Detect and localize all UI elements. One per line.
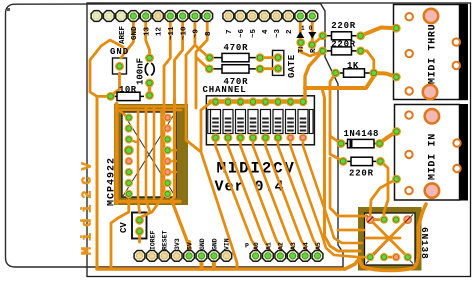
via RX0 [308,40,317,49]
svg-text:CV: CV [119,222,129,233]
svg-text:P: P [245,243,249,250]
svg-text:VIN: VIN [224,238,231,250]
wire 1K left down [330,73,341,144]
IC U1 inner traces [119,111,176,194]
wire GND pad13 to GND square [121,16,133,58]
wire entry 6N138 mid [338,229,364,232]
svg-text:12: 12 [156,26,164,36]
svg-text:GATE: GATE [287,54,297,78]
wire long vertical to 6N138 [322,88,360,251]
svg-text:8: 8 [205,31,213,36]
header J3 labels [149,230,230,250]
IC U1 MCP4922 socket body [114,104,188,205]
TX0 marker [296,25,306,53]
svg-text:A2: A2 [278,242,285,250]
wire ~9 down [186,16,195,110]
wire right vertical to GND [186,100,201,152]
switch S1 body [206,96,314,145]
connector CV [135,216,144,225]
svg-text:A0: A0 [253,242,260,250]
svg-text:3V3: 3V3 [174,238,181,250]
wire 220R-3 right up [380,161,388,220]
header J2 pin labels [226,28,294,38]
wire ~10 down [175,16,183,107]
svg-text:7: 7 [226,29,234,34]
switch S1 pads bottom [211,133,307,142]
svg-text:A5: A5 [315,242,322,250]
wire 10R left to rail [97,95,111,98]
wire 5V thick riser [187,242,191,256]
svg-text:GND: GND [211,238,218,250]
wire 470R right to GATE pads [260,56,273,59]
svg-text:MIDI THRU: MIDI THRU [428,24,439,84]
wire IC frame bottom horizontal [116,200,180,203]
svg-text:100nF: 100nF [136,58,146,85]
header J3 power row [134,251,232,262]
GND square outline [113,58,127,74]
wire 8 down [196,16,207,108]
GND square pad [115,62,124,71]
svg-text:GND: GND [199,238,206,250]
svg-text:5V: 5V [187,242,194,250]
svg-text:Ver 0.4: Ver 0.4 [215,179,285,196]
IC U2 6N138 socket body [358,207,422,271]
wire fan 2 [228,138,268,255]
wire into bar from left [201,102,237,267]
wire fan 4 [253,138,293,255]
connector GATE [274,53,283,62]
wire RX0 pad stub [311,16,314,45]
svg-text:CHANNEL: CHANNEL [203,85,247,95]
svg-text:A1: A1 [265,242,272,250]
wire fan 6 [278,138,318,255]
svg-text:GND: GND [131,26,139,40]
wire bus into 6N138 [345,259,359,269]
svg-text:A3: A3 [290,242,297,250]
Arduino board outline [6,4,344,268]
wire frame-right vertical to 5V [172,100,190,256]
svg-text:1N4148: 1N4148 [344,129,379,139]
switch S1 pads top [211,97,307,106]
wire 470R-1 left diagonal [196,46,210,58]
svg-text:~5: ~5 [250,28,258,38]
svg-text:220R: 220R [349,169,374,179]
wire bundle horizontal over IC top [117,105,187,108]
corner mark [7,8,10,11]
connector MIDI THRU [392,4,468,100]
svg-text:A4: A4 [303,242,310,250]
svg-text:13: 13 [143,26,151,36]
svg-text:~11: ~11 [168,26,176,40]
wire 470R-2 left diagonal [197,58,209,70]
header J2 top row right (7..0) [223,11,318,22]
svg-text:~6: ~6 [238,28,246,38]
svg-text:2: 2 [286,29,294,34]
IC U2 inner wires [366,220,408,258]
svg-text:IOREF: IOREF [149,230,156,250]
wire fan 7 to 6N138 [291,138,367,257]
IC U2 pads [366,215,412,261]
wire bar riser to TX region [305,51,323,100]
wire capacitor to 10R [148,83,151,95]
wire THRU pin2 thick loop [305,76,374,88]
svg-text:MCP4922: MCP4922 [107,157,118,206]
wire AREF-side gnd diagonal [90,40,123,96]
wire 6N138 bottom loop to MIDI IN [359,204,426,270]
wire RX0 via to 220R-1 [312,36,323,45]
shield board outline [87,3,471,277]
header J1 pin labels [119,25,213,44]
wire ~11 down through IC [140,16,171,220]
wire left rail down [96,96,99,269]
svg-text:470R: 470R [224,43,249,53]
resistor R7 220R [343,160,380,162]
wire fan 8 to 6N138 [303,138,362,243]
connector CV outline [132,213,147,239]
svg-text:GND: GND [110,47,129,57]
wire GND square down [110,73,120,96]
svg-text:AREF: AREF [119,25,127,44]
header J4 labels [245,242,322,250]
svg-text:0: 0 [309,25,313,32]
svg-text:4: 4 [262,29,270,34]
wire CV bottom stub [138,231,141,242]
wire to 220R-3 left [330,132,343,161]
svg-text:220R: 220R [331,21,356,31]
connector MIDI IN [392,104,468,201]
wire DIP top thick bar [211,99,304,104]
wire 1N4148 right to MIDI IN pin [380,132,397,144]
wire fan 3 [241,138,281,255]
svg-text:6N138: 6N138 [419,227,430,260]
RX0 marker [308,25,318,53]
wire right bundle down to 6N138 [330,158,366,216]
wire TX0 via to 220R-2 [301,43,323,57]
via TX0 [296,38,305,47]
wire bottom gnd bus [97,267,345,271]
wire MIDI IN pin2 to 6N138 [370,179,396,214]
connector GATE outline [273,50,284,75]
svg-text:Midi2CV: Midi2CV [81,156,96,255]
wire 1K to MIDI THRU pin [374,73,397,77]
wire 220R-2 right to 1K [361,51,374,73]
wire IC left edge vertical [115,104,119,203]
wire fan 5 [266,138,306,255]
wire fan 1 [216,138,256,255]
svg-text:~9: ~9 [193,28,201,38]
resistor R3 470R [209,68,260,70]
svg-text:~3: ~3 [274,28,282,38]
svg-text:RESET: RESET [162,230,169,250]
svg-text:1: 1 [301,25,305,32]
wire IC inner verticals [138,110,140,213]
IC U1 pads [124,113,172,198]
wire TX0 pad stub [299,16,302,43]
wire IC pin to bus via left [111,200,129,269]
wire pad 13 to capacitor [146,16,150,58]
svg-text:~10: ~10 [180,26,188,40]
header J1 top row left (AREF..8) [91,11,213,22]
svg-text:MIDI IN: MIDI IN [428,133,439,180]
header J4 analog row [250,251,323,262]
wire gnd pads riser [200,256,204,269]
wire 220R-1 to MIDI THRU pin [361,28,397,36]
